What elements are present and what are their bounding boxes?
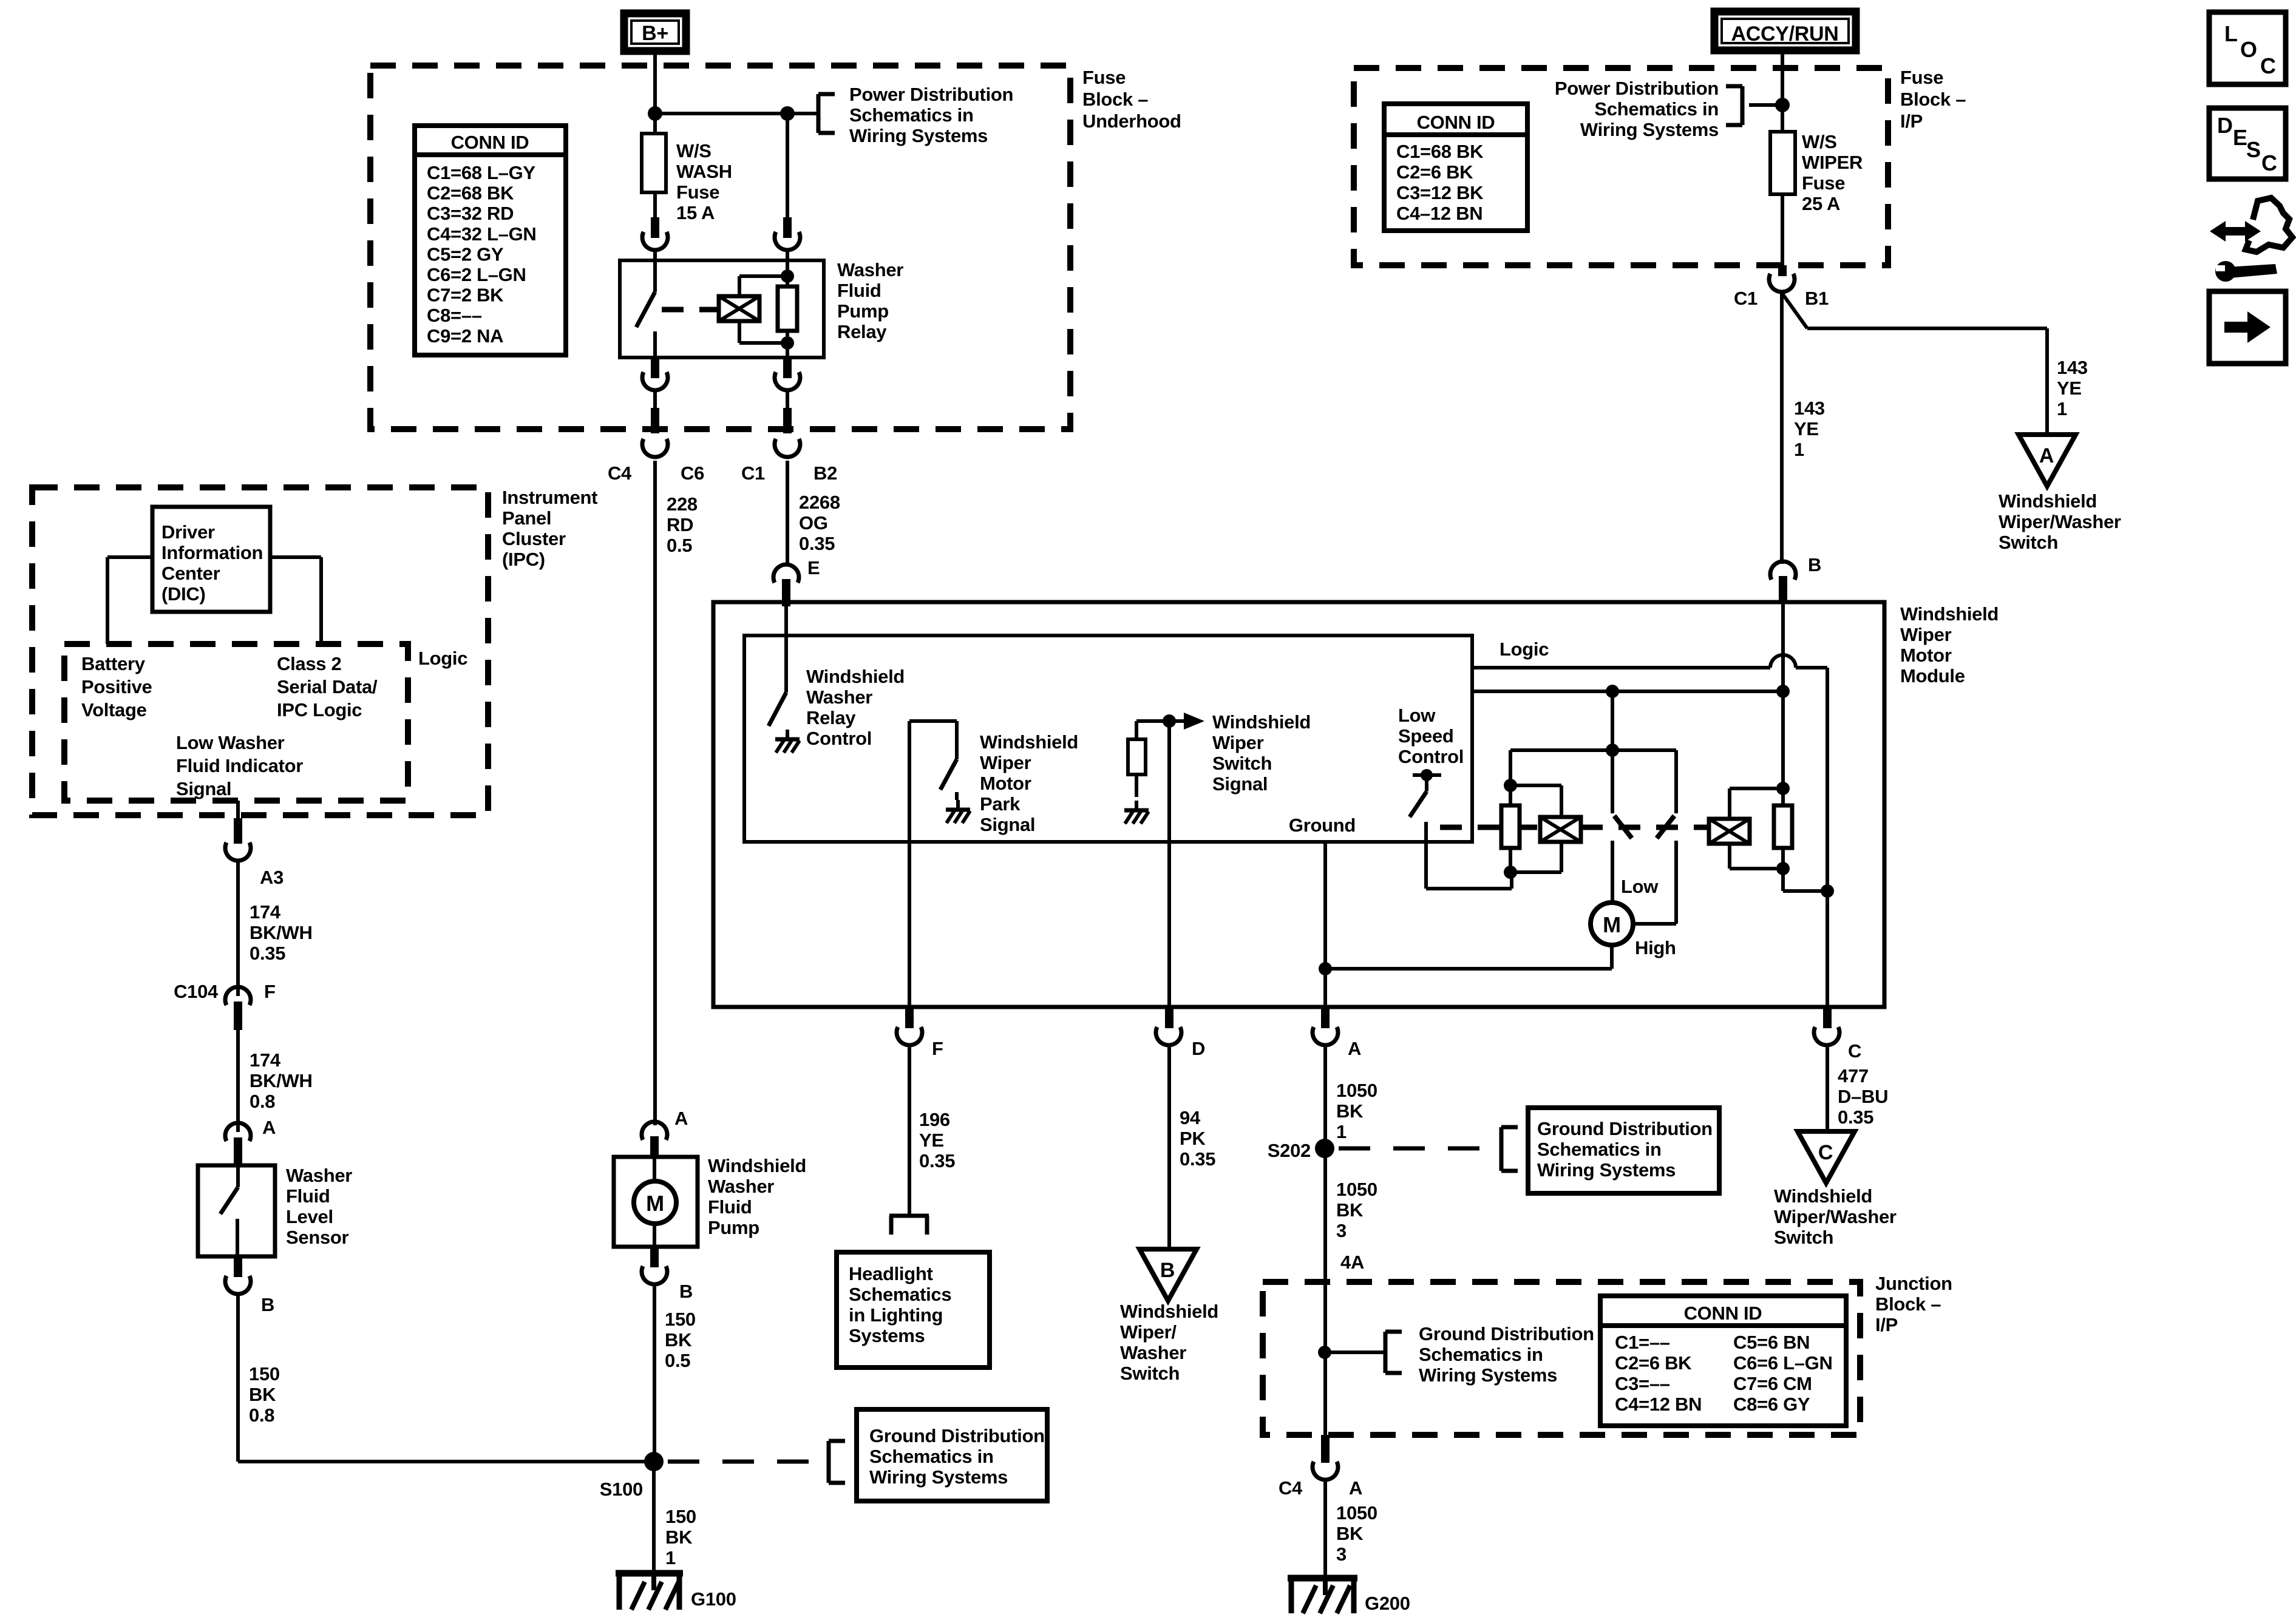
svg-text:Wiring Systems: Wiring Systems bbox=[869, 1466, 1008, 1488]
svg-text:C6=2 L–GN: C6=2 L–GN bbox=[427, 264, 526, 285]
svg-text:YE: YE bbox=[1794, 418, 1819, 439]
svg-text:Block –: Block – bbox=[1900, 89, 1966, 110]
svg-text:ACCY/RUN: ACCY/RUN bbox=[1731, 22, 1838, 46]
wire coil top loop bbox=[739, 276, 787, 296]
svg-text:Information: Information bbox=[161, 542, 263, 563]
wire motor to high line bbox=[1325, 945, 1612, 969]
svg-text:Control: Control bbox=[806, 728, 872, 749]
wire hop over B wire bbox=[1770, 655, 1796, 668]
svg-text:IPC Logic: IPC Logic bbox=[277, 699, 362, 720]
label wire 94 PK 0.35 bbox=[1180, 1107, 1215, 1170]
svg-text:Ground Distribution: Ground Distribution bbox=[869, 1425, 1045, 1446]
svg-text:Class 2: Class 2 bbox=[277, 653, 341, 674]
label wire 150 BK 0.8 bbox=[249, 1363, 280, 1426]
svg-text:C4=12 BN: C4=12 BN bbox=[1615, 1394, 1702, 1415]
fuse F2 W/S WIPER 25A bbox=[1770, 132, 1795, 194]
wire B+ feed bbox=[653, 55, 657, 220]
module internal bus line 3 bbox=[1510, 748, 1676, 752]
label High bbox=[1635, 937, 1676, 958]
svg-text:150: 150 bbox=[249, 1363, 280, 1384]
svg-text:C: C bbox=[2260, 53, 2276, 78]
svg-text:C4–12 BN: C4–12 BN bbox=[1396, 203, 1483, 224]
connector C1/B2 at fuse block boundary bbox=[775, 408, 800, 457]
right drive resistor bbox=[1774, 782, 1792, 875]
left drive resistor bbox=[1501, 779, 1520, 879]
svg-text:C2=68 BK: C2=68 BK bbox=[427, 183, 514, 204]
right relay coil bbox=[1709, 819, 1750, 844]
conn id table junction block bbox=[1600, 1296, 1846, 1426]
svg-text:M: M bbox=[646, 1191, 664, 1216]
svg-text:Fluid: Fluid bbox=[708, 1196, 752, 1218]
svg-text:C4: C4 bbox=[608, 463, 632, 484]
label wire 143 YE 1 left bbox=[1794, 398, 1825, 460]
node junction block ground branch bbox=[1318, 1346, 1331, 1359]
icon box arrow bbox=[2209, 291, 2286, 364]
svg-text:94: 94 bbox=[1180, 1107, 1201, 1128]
svg-text:3: 3 bbox=[1336, 1220, 1347, 1241]
svg-text:C3=12 BK: C3=12 BK bbox=[1396, 182, 1484, 203]
node bus2 B wire bbox=[1776, 685, 1790, 698]
bracket ground distribution S202 bbox=[1501, 1127, 1518, 1171]
connector A at washer fluid pump bbox=[642, 1108, 688, 1158]
svg-text:Ground: Ground bbox=[1289, 815, 1356, 836]
label Fuse Block Underhood bbox=[1082, 67, 1181, 132]
svg-text:477: 477 bbox=[1838, 1065, 1869, 1086]
svg-text:Schematics in: Schematics in bbox=[849, 104, 974, 126]
svg-text:C1=––: C1=–– bbox=[1615, 1332, 1670, 1353]
node switch signal bbox=[1163, 714, 1176, 728]
svg-text:B: B bbox=[261, 1294, 274, 1315]
ground symbol park signal bbox=[946, 800, 970, 823]
svg-text:Speed: Speed bbox=[1398, 725, 1454, 747]
svg-text:0.5: 0.5 bbox=[665, 1350, 690, 1371]
pump motor M bbox=[634, 1158, 676, 1247]
connector C4/C6 at fuse block boundary bbox=[642, 408, 668, 457]
node coil top bbox=[781, 269, 794, 283]
svg-text:Windshield: Windshield bbox=[1900, 603, 1999, 625]
svg-text:CONN ID: CONN ID bbox=[1417, 112, 1495, 133]
svg-text:Logic: Logic bbox=[1500, 639, 1549, 660]
svg-text:B: B bbox=[1160, 1259, 1175, 1282]
svg-text:1050: 1050 bbox=[1336, 1179, 1377, 1200]
svg-text:Sensor: Sensor bbox=[286, 1227, 349, 1248]
dashed actuator line bbox=[1440, 825, 1709, 830]
svg-text:F: F bbox=[264, 981, 276, 1002]
windshield wiper motor module box bbox=[713, 602, 1884, 1007]
low speed control switch bbox=[1410, 769, 1441, 817]
wire ACCY/RUN feed bbox=[1781, 54, 1784, 267]
wire to power distribution bracket IP bbox=[1749, 103, 1782, 107]
ground symbol washer relay control bbox=[775, 730, 800, 753]
svg-text:Fluid: Fluid bbox=[286, 1185, 330, 1207]
label wire 196 YE 0.35 bbox=[919, 1109, 955, 1171]
label Class 2 Serial Data IPC Logic bbox=[277, 653, 378, 720]
arrow windshield wiper switch signal bbox=[1169, 713, 1204, 730]
node bus2 center switch bbox=[1606, 685, 1619, 698]
svg-text:Instrument: Instrument bbox=[502, 487, 597, 508]
wire to bracket junction block bbox=[1325, 1351, 1385, 1354]
svg-text:Wiper/: Wiper/ bbox=[1120, 1321, 1177, 1343]
svg-text:A: A bbox=[1348, 1038, 1361, 1059]
connector C1/B1 at fuse block IP exit bbox=[1734, 265, 1829, 309]
fuse F1 W/S WASH 15A bbox=[642, 134, 666, 192]
svg-text:0.5: 0.5 bbox=[667, 535, 692, 556]
washer fluid level sensor switch bbox=[220, 1167, 238, 1256]
ground symbol switch signal bbox=[1124, 801, 1149, 824]
logic dashed box IPC bbox=[64, 644, 408, 801]
svg-text:(DIC): (DIC) bbox=[161, 583, 206, 605]
svg-text:S100: S100 bbox=[600, 1479, 643, 1500]
svg-text:B1: B1 bbox=[1805, 288, 1829, 309]
module internal bus line 2 bbox=[1472, 690, 1783, 693]
wire 228 RD to pump bbox=[653, 461, 657, 1125]
svg-text:Pump: Pump bbox=[837, 300, 889, 322]
svg-text:C1: C1 bbox=[741, 463, 765, 484]
label Low Speed Control bbox=[1398, 705, 1464, 767]
svg-text:A: A bbox=[1349, 1477, 1362, 1499]
label Windshield Wiper Switch Signal bbox=[1212, 711, 1311, 795]
label wire 174 BK/WH 0.35 bbox=[250, 901, 313, 964]
off-page triangle B wiper washer switch bbox=[1140, 1249, 1197, 1301]
label W/S WIPER Fuse 25 A bbox=[1802, 131, 1863, 214]
svg-text:Positive: Positive bbox=[81, 676, 152, 697]
wire 196 YE to headlight schematics bbox=[908, 1046, 911, 1216]
logic box in module bbox=[744, 635, 1472, 842]
svg-text:C6: C6 bbox=[681, 463, 704, 484]
svg-text:Windshield: Windshield bbox=[980, 731, 1078, 753]
svg-text:143: 143 bbox=[2057, 357, 2088, 378]
svg-text:0.8: 0.8 bbox=[250, 1091, 275, 1112]
pin label C4 bbox=[608, 463, 632, 484]
svg-text:Schematics: Schematics bbox=[849, 1284, 951, 1305]
node splice accy feed bbox=[1775, 98, 1790, 112]
svg-text:150: 150 bbox=[665, 1309, 696, 1330]
label Ground Distribution junction block bbox=[1419, 1323, 1594, 1386]
svg-text:PK: PK bbox=[1180, 1128, 1206, 1149]
svg-text:C1=68 BK: C1=68 BK bbox=[1396, 141, 1484, 162]
connector B below sensor bbox=[225, 1256, 274, 1315]
svg-text:Wiper: Wiper bbox=[1212, 732, 1264, 753]
bracket power distribution underhood bbox=[818, 94, 835, 133]
label Windshield Wiper/Washer Switch top right bbox=[1999, 490, 2121, 553]
svg-text:Battery: Battery bbox=[81, 653, 146, 674]
svg-text:25 A: 25 A bbox=[1802, 193, 1840, 214]
bracket ground distribution S100 bbox=[829, 1441, 845, 1483]
svg-text:Motor: Motor bbox=[980, 773, 1031, 794]
svg-text:Wiring Systems: Wiring Systems bbox=[1419, 1364, 1557, 1386]
svg-text:Washer: Washer bbox=[806, 686, 872, 708]
right coil loop bbox=[1730, 788, 1783, 869]
svg-text:Relay: Relay bbox=[837, 321, 887, 342]
connector F below module bbox=[897, 1007, 943, 1059]
svg-text:C4: C4 bbox=[1279, 1477, 1303, 1499]
label Instrument Panel Cluster IPC bbox=[502, 487, 597, 570]
svg-text:Wiring Systems: Wiring Systems bbox=[1537, 1159, 1676, 1181]
svg-text:Driver: Driver bbox=[161, 521, 215, 543]
node C feed bbox=[1821, 884, 1834, 898]
wire logic to left resistor corner bbox=[1509, 750, 1512, 785]
svg-text:Wiper: Wiper bbox=[1900, 624, 1952, 645]
label wire 477 D-BU 0.35 bbox=[1838, 1065, 1888, 1128]
svg-text:BK: BK bbox=[665, 1527, 693, 1548]
svg-text:C6=6 L–GN: C6=6 L–GN bbox=[1733, 1352, 1833, 1374]
svg-text:15 A: 15 A bbox=[676, 202, 715, 223]
svg-text:C4=32 L–GN: C4=32 L–GN bbox=[427, 223, 537, 245]
svg-text:Relay: Relay bbox=[806, 707, 856, 728]
svg-text:BK: BK bbox=[1336, 1523, 1364, 1544]
label Junction Block IP bbox=[1875, 1273, 1952, 1335]
svg-text:0.35: 0.35 bbox=[250, 943, 285, 964]
svg-text:S: S bbox=[2246, 137, 2261, 162]
connector B into wiper motor module bbox=[1770, 554, 1821, 603]
svg-text:1: 1 bbox=[1794, 439, 1804, 460]
svg-text:Voltage: Voltage bbox=[81, 699, 147, 720]
wire 94 PK to triangle B bbox=[1167, 1046, 1171, 1249]
svg-text:A: A bbox=[674, 1108, 688, 1129]
svg-text:Schematics in: Schematics in bbox=[1594, 98, 1719, 120]
label Low Washer Fluid Indicator Signal bbox=[176, 732, 303, 799]
svg-text:C1=68 L–GY: C1=68 L–GY bbox=[427, 162, 535, 183]
svg-text:1: 1 bbox=[2057, 398, 2067, 419]
connector A at washer fluid level sensor bbox=[225, 1117, 276, 1167]
off-page triangle A windshield wiper/washer switch bbox=[2019, 435, 2076, 486]
svg-text:Schematics in: Schematics in bbox=[869, 1446, 994, 1467]
svg-text:4A: 4A bbox=[1340, 1252, 1364, 1273]
svg-text:C1: C1 bbox=[1734, 288, 1758, 309]
motor speed selector switch right bbox=[1657, 750, 1676, 924]
connector E into wiper motor module bbox=[773, 557, 820, 606]
svg-text:Washer: Washer bbox=[286, 1165, 352, 1186]
svg-text:C8=––: C8=–– bbox=[427, 305, 482, 326]
svg-text:0.35: 0.35 bbox=[1180, 1148, 1215, 1170]
label Battery Positive Voltage bbox=[81, 653, 152, 720]
svg-text:YE: YE bbox=[919, 1130, 944, 1151]
wire DIC to battery positive bbox=[107, 557, 152, 644]
label Logic module bbox=[1500, 639, 1549, 660]
svg-text:C3=––: C3=–– bbox=[1615, 1373, 1670, 1394]
svg-text:1: 1 bbox=[1336, 1121, 1347, 1142]
svg-text:D: D bbox=[2217, 113, 2233, 138]
wire to power distribution bracket bbox=[787, 112, 818, 115]
svg-text:I/P: I/P bbox=[1900, 110, 1923, 132]
svg-text:D: D bbox=[1192, 1038, 1205, 1059]
wire ground to A bbox=[1323, 842, 1327, 1007]
svg-text:C104: C104 bbox=[174, 981, 219, 1002]
svg-text:BK: BK bbox=[1336, 1100, 1364, 1122]
svg-text:Washer: Washer bbox=[708, 1176, 774, 1197]
svg-text:C: C bbox=[2261, 151, 2277, 175]
node coil bottom bbox=[781, 336, 794, 350]
node branch dot bbox=[780, 106, 795, 121]
svg-text:Switch: Switch bbox=[1212, 753, 1272, 774]
relay switch contact bbox=[636, 260, 655, 358]
svg-text:C9=2 NA: C9=2 NA bbox=[427, 325, 503, 347]
wire 150 BK 1 to G100 bbox=[652, 1462, 656, 1576]
wiper motor M bbox=[1591, 903, 1633, 945]
svg-text:Windshield: Windshield bbox=[1212, 711, 1311, 733]
label Washer Fluid Level Sensor bbox=[286, 1165, 352, 1248]
svg-text:Schematics in: Schematics in bbox=[1419, 1344, 1543, 1365]
ground distribution schematics box S100 bbox=[857, 1409, 1047, 1501]
svg-text:C2=6 BK: C2=6 BK bbox=[1396, 161, 1473, 183]
ground distribution schematics box S202 bbox=[1528, 1108, 1719, 1193]
washer relay control wire and switch bbox=[769, 606, 786, 726]
svg-text:Wiring Systems: Wiring Systems bbox=[1580, 119, 1719, 140]
svg-text:Center: Center bbox=[161, 563, 220, 584]
svg-text:Power Distribution: Power Distribution bbox=[849, 84, 1013, 105]
label wire 150 BK 0.5 bbox=[665, 1309, 696, 1371]
wire into relay bbox=[655, 248, 787, 260]
svg-text:1050: 1050 bbox=[1336, 1080, 1377, 1101]
svg-text:Fuse: Fuse bbox=[1082, 67, 1126, 88]
svg-text:Windshield: Windshield bbox=[1120, 1301, 1218, 1322]
wire DIC to class 2 serial data bbox=[270, 557, 321, 644]
headlight schematics box bbox=[837, 1252, 990, 1368]
svg-text:C: C bbox=[1818, 1141, 1833, 1164]
svg-text:Power Distribution: Power Distribution bbox=[1555, 78, 1719, 99]
svg-text:Windshield: Windshield bbox=[1774, 1185, 1872, 1207]
label Logic IPC bbox=[418, 648, 467, 669]
svg-text:BK/WH: BK/WH bbox=[250, 1070, 313, 1091]
label Power Distribution Schematics in Wiring Systems IP bbox=[1555, 78, 1719, 140]
svg-text:Signal: Signal bbox=[1212, 773, 1268, 795]
connector below relay right bbox=[775, 358, 800, 390]
wire low washer signal out of IPC bbox=[236, 801, 240, 821]
module internal bus line 1 bbox=[1472, 666, 1770, 669]
wire 2268 OG to module bbox=[786, 461, 789, 564]
svg-text:D–BU: D–BU bbox=[1838, 1086, 1888, 1107]
label wire 150 BK 1 bbox=[665, 1506, 696, 1568]
svg-text:B: B bbox=[679, 1281, 693, 1302]
relay coil bbox=[719, 296, 759, 321]
svg-text:0.35: 0.35 bbox=[799, 533, 835, 554]
svg-text:Low: Low bbox=[1621, 876, 1659, 897]
svg-text:Park: Park bbox=[980, 793, 1021, 815]
svg-text:C2=6 BK: C2=6 BK bbox=[1615, 1352, 1692, 1374]
label Windshield Wiper Washer Switch bottom bbox=[1120, 1301, 1218, 1384]
svg-text:1: 1 bbox=[665, 1547, 676, 1568]
svg-text:150: 150 bbox=[665, 1506, 696, 1527]
svg-text:3: 3 bbox=[1336, 1544, 1347, 1565]
svg-text:Signal: Signal bbox=[176, 778, 231, 799]
connector A3 at IPC bbox=[225, 818, 284, 888]
svg-text:Cluster: Cluster bbox=[502, 528, 566, 549]
svg-text:Switch: Switch bbox=[1774, 1227, 1833, 1248]
svg-text:B: B bbox=[1808, 554, 1821, 575]
svg-text:174: 174 bbox=[250, 901, 281, 923]
svg-text:S202: S202 bbox=[1268, 1140, 1311, 1161]
wire 174 BK/WH 0.35 bbox=[236, 861, 240, 996]
label Driver Information Center DIC bbox=[161, 521, 263, 605]
wire inside junction block bbox=[1323, 1282, 1327, 1435]
connector C104 pin F bbox=[174, 981, 276, 1030]
svg-text:C5=2 GY: C5=2 GY bbox=[427, 243, 504, 265]
svg-text:C8=6 GY: C8=6 GY bbox=[1733, 1394, 1810, 1415]
svg-text:O: O bbox=[2240, 37, 2257, 62]
svg-text:Junction: Junction bbox=[1875, 1273, 1952, 1294]
wire branch B1 to wiper washer switch bbox=[1782, 294, 2047, 435]
svg-text:Motor: Motor bbox=[1900, 645, 1952, 666]
label wire 174 BK/WH 0.8 bbox=[250, 1049, 313, 1112]
svg-text:A: A bbox=[2039, 444, 2054, 467]
svg-text:Low Washer: Low Washer bbox=[176, 732, 285, 753]
wire 174 BK/WH 0.8 bbox=[236, 1030, 240, 1132]
fuse block underhood dashed box bbox=[370, 66, 1070, 429]
label Fuse Block IP bbox=[1900, 67, 1966, 132]
svg-text:Wiper/Washer: Wiper/Washer bbox=[1774, 1206, 1897, 1227]
label Windshield Wiper Motor Module bbox=[1900, 603, 1999, 686]
svg-text:Fluid: Fluid bbox=[837, 280, 881, 301]
svg-text:WIPER: WIPER bbox=[1802, 152, 1863, 173]
wire low speed control to coil loop bbox=[1426, 822, 1512, 889]
svg-text:C5=6 BN: C5=6 BN bbox=[1733, 1332, 1810, 1353]
connector C4/A below junction block bbox=[1279, 1435, 1362, 1499]
bracket ground distribution junction block bbox=[1385, 1332, 1402, 1373]
svg-text:Switch: Switch bbox=[1999, 532, 2058, 553]
ground G200 bbox=[1288, 1576, 1410, 1614]
svg-text:BK: BK bbox=[249, 1384, 276, 1405]
svg-text:Washer: Washer bbox=[837, 259, 903, 280]
power terminal ACCY/RUN bbox=[1714, 12, 1856, 50]
power terminal B+ bbox=[624, 13, 686, 51]
wire right resistor to C feed bbox=[1783, 869, 1827, 891]
svg-text:RD: RD bbox=[667, 514, 693, 535]
left relay coil bbox=[1540, 817, 1581, 842]
svg-text:I/P: I/P bbox=[1875, 1314, 1898, 1335]
svg-text:F: F bbox=[932, 1038, 943, 1059]
node bus3 center switch bbox=[1606, 744, 1619, 757]
wire coil bottom loop bbox=[739, 321, 787, 343]
svg-text:Wiper/Washer: Wiper/Washer bbox=[1999, 511, 2121, 532]
svg-text:Block –: Block – bbox=[1082, 89, 1148, 110]
bracket power distribution IP bbox=[1726, 86, 1742, 125]
connector A below module bbox=[1313, 1007, 1361, 1059]
svg-text:G200: G200 bbox=[1365, 1593, 1410, 1614]
svg-text:228: 228 bbox=[667, 493, 698, 515]
svg-text:in Lighting: in Lighting bbox=[849, 1304, 943, 1326]
label wire 2268 OG 0.35 bbox=[799, 492, 840, 554]
wire B feed inside module bbox=[1781, 603, 1785, 788]
pin label C6 bbox=[681, 463, 704, 484]
svg-text:CONN ID: CONN ID bbox=[451, 132, 529, 153]
svg-text:B+: B+ bbox=[642, 22, 668, 45]
svg-text:Washer: Washer bbox=[1120, 1342, 1186, 1363]
svg-text:Level: Level bbox=[286, 1206, 333, 1227]
splice S100 bbox=[600, 1452, 664, 1500]
svg-text:Panel: Panel bbox=[502, 507, 551, 529]
svg-text:Windshield: Windshield bbox=[1999, 490, 2097, 512]
svg-text:0.35: 0.35 bbox=[1838, 1107, 1873, 1128]
label W/S WASH Fuse 15 A bbox=[676, 140, 732, 223]
label wire 228 RD 0.5 bbox=[667, 493, 698, 556]
windshield washer fluid pump box bbox=[614, 1157, 698, 1247]
wire motor right contact bbox=[1632, 922, 1676, 926]
pin label B2 bbox=[813, 463, 837, 484]
icon box DESC bbox=[2209, 108, 2286, 179]
label Low bbox=[1621, 876, 1659, 897]
svg-text:High: High bbox=[1635, 937, 1676, 958]
wire 1050 BK 1 bbox=[1323, 1046, 1327, 1282]
svg-text:Switch: Switch bbox=[1120, 1363, 1180, 1384]
svg-text:Module: Module bbox=[1900, 665, 1965, 686]
resistor in relay bbox=[778, 260, 797, 358]
connector D below module bbox=[1156, 1007, 1205, 1059]
label Power Distribution Schematics in Wiring Systems bbox=[849, 84, 1013, 146]
label Windshield Washer Fluid Pump bbox=[708, 1155, 806, 1238]
terminal staple to headlight schematics bbox=[889, 1216, 929, 1235]
label wire 1050 BK 3 bbox=[1336, 1179, 1377, 1241]
svg-text:W/S: W/S bbox=[1802, 131, 1837, 152]
